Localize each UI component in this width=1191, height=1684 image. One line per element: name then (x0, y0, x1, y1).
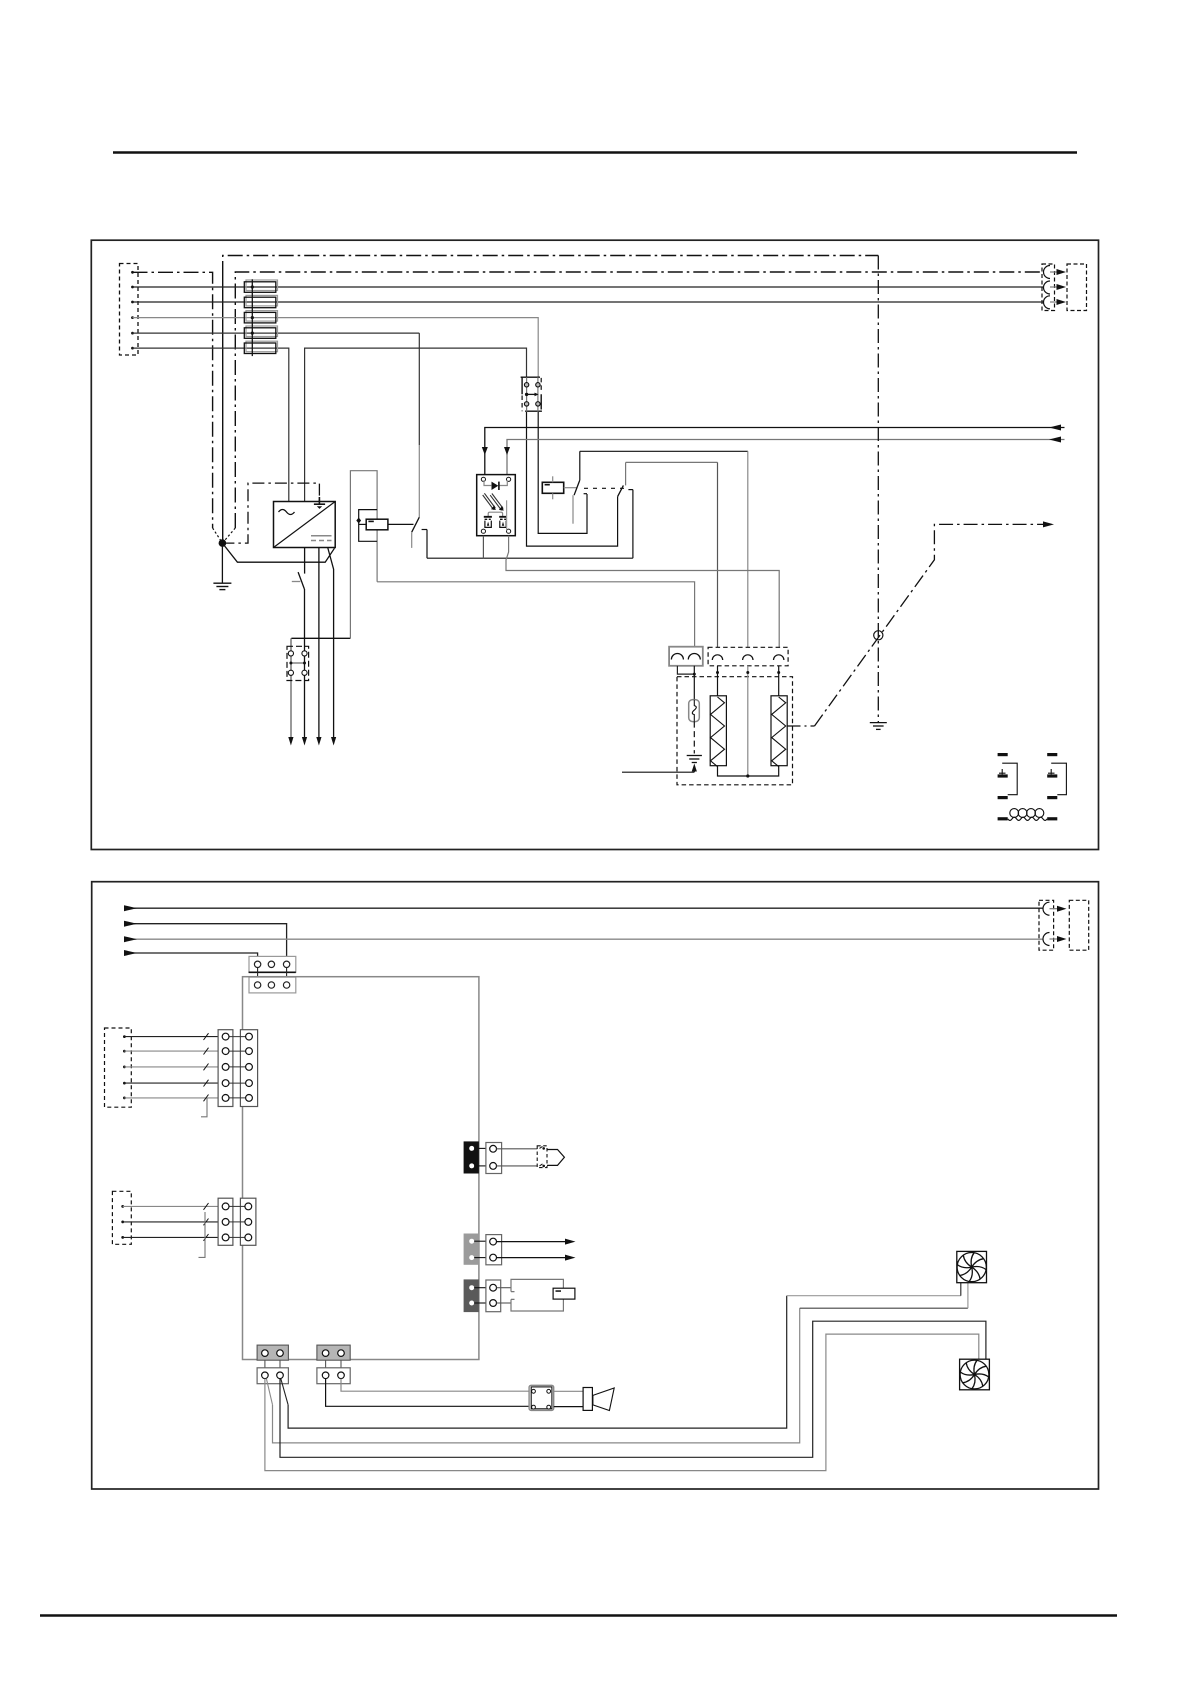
connector pair P1 (black) (464, 1141, 502, 1173)
wire: K2 c1 to strip pin2 (580, 450, 748, 452)
wire: K2 c2 to strip pin1 (gray) (626, 461, 718, 463)
connector X9 (dashed) (112, 1191, 131, 1244)
connector X13 mate (dashed) (1069, 900, 1088, 950)
gray bridge wire W1 (350, 471, 377, 639)
wire: net S2 out / opto / K2 throw (427, 557, 633, 559)
junction node N1 (213, 528, 236, 547)
frame: diagram box 1 (91, 240, 1098, 849)
terminal block X8 (218, 1030, 258, 1107)
connector X5 mate (dashed) (1067, 264, 1087, 311)
linkage (dashed) (584, 487, 627, 489)
wire: fan circuit run 4 (gray) (265, 1334, 979, 1471)
wire: pin5 drop (gray) (418, 333, 420, 445)
fan M1 (957, 1251, 987, 1282)
diagonal tap run2 (266, 1379, 272, 1405)
wire: T1 outA (527, 412, 618, 546)
connector X2 (4 screws) (287, 646, 309, 680)
wire: control line 2 with left arrow (gray) (504, 437, 1065, 475)
gray wire W2 to lamp strip (377, 582, 694, 649)
wire: X2 left drop (290, 638, 292, 740)
K1 coil left loop (356, 510, 377, 542)
fuse F5 (244, 341, 277, 353)
header rule (113, 151, 1077, 153)
diagonal tap run1 (281, 1379, 288, 1405)
wire: horn feed 1 (326, 1379, 529, 1407)
fuse F3 (244, 311, 277, 323)
wires P1 to sensor (497, 1149, 538, 1166)
connector X7 (dashed) (105, 1028, 132, 1107)
connector X6 row 2 (249, 968, 296, 993)
wire: fan circuit run 1 (288, 1296, 787, 1428)
arrow down D (331, 737, 336, 746)
fuse F4 (244, 326, 277, 338)
power supply U1 (AC/DC) (274, 502, 336, 548)
terminal strip X3 (2 way) (669, 647, 703, 676)
shield drain (lower) (199, 1212, 206, 1257)
arrow down A (288, 737, 293, 746)
wire: PSU out3 (328, 548, 334, 740)
frame: diagram box 2 (92, 882, 1099, 1489)
connector X6 row 1 (249, 956, 296, 972)
lamp ground (dashed) (687, 722, 702, 763)
terminal block X10 (218, 1198, 256, 1245)
wire: opto pin3 down to net (482, 536, 484, 559)
fuse column rail (251, 279, 254, 356)
wire: T1 outB (538, 412, 587, 534)
wire: N1 to PSU output corner (222, 543, 334, 562)
arrowhead for line1 (1049, 425, 1061, 431)
wires horn block to horn (554, 1391, 583, 1406)
wire: PSU out2 (318, 548, 320, 740)
wire: pin3 (133, 301, 1044, 303)
fuse F1 (244, 280, 277, 292)
wire: bus 1 with entry arrow (124, 905, 1044, 911)
wire: opto pin4 down to heater strip (gray) (506, 536, 779, 649)
shield drain (upper) (201, 1098, 207, 1117)
wires X9 to terminal (123, 1203, 226, 1241)
wire: S1 to X2 (304, 589, 306, 740)
earth link dash-dot to PSU (222, 483, 319, 543)
X13 arrows (1050, 906, 1067, 942)
legend symbol: coil (998, 809, 1058, 821)
relay K1 coil (366, 519, 388, 530)
horn H1 (583, 1388, 614, 1411)
wire: K1 coil to S2 (388, 523, 414, 525)
vertical dash-dot drop with pickup (874, 256, 883, 723)
wire: bus 2 with entry arrow (124, 921, 287, 961)
footer rule (40, 1614, 1117, 1616)
fan M2 (960, 1359, 990, 1390)
arrow down B (302, 737, 307, 746)
opto relay U2 (477, 475, 516, 536)
wire: pin6 continuation via T1 (305, 348, 527, 501)
wire: K2 coil to blade (564, 487, 578, 489)
K2 contact 2 (618, 462, 633, 558)
connector X12 grey row (317, 1345, 350, 1384)
wire: control line 1 with left arrow (482, 428, 1065, 475)
horn connector block (529, 1385, 554, 1410)
arrow down C (316, 737, 321, 746)
K2 contact 1 (573, 451, 587, 523)
wire: PSU out1 to switch S1 (304, 548, 306, 574)
connector X5 (box1 right) (1042, 264, 1055, 311)
wire: pin1 dash-dot left segment (133, 272, 213, 528)
switch S2 (K1 contact) (412, 517, 427, 558)
wire: bus 4 with entry arrow (124, 950, 258, 961)
output arrows from P2 (497, 1239, 576, 1261)
heater centre return (746, 666, 749, 778)
component T1 (fuse block 4 screws) (521, 377, 542, 412)
connector pair P3 (dark grey) (464, 1279, 501, 1312)
terminal strip X4 (3 way, dashed) (708, 647, 788, 666)
wires X7 to terminal (124, 1033, 225, 1101)
lamp return arrow (622, 764, 697, 773)
wire: pin4 (gray) (133, 318, 539, 378)
X5 arrows (1050, 269, 1066, 305)
heater assembly box (dashed) (677, 677, 793, 785)
wire: heater sense tap dash-dot (787, 725, 814, 727)
wire: horn feed 2 (gray) (341, 1379, 529, 1392)
wire: pin1 dash-dot right segment to connector X5 (235, 272, 1043, 528)
connector X13 (box2 right) (1039, 900, 1054, 950)
legend symbol: connector group A (998, 753, 1018, 799)
sensor plug (dashed) with arrow body (537, 1146, 564, 1168)
wire: X2 feed line (291, 637, 350, 639)
legend symbol: connector group B (1047, 753, 1066, 799)
connector pair P2 (grey) (464, 1234, 502, 1265)
connector X11 grey row (257, 1345, 288, 1384)
lamp L1 (689, 666, 700, 722)
relay K2 coil (542, 476, 563, 499)
socket housing (497, 1279, 575, 1311)
heater R1 (710, 666, 748, 776)
wire: fan circuit run 2 (gray) (273, 1308, 800, 1443)
heater R2 (748, 666, 787, 776)
wire: top dash-dot bus (223, 256, 879, 277)
wire: pin2 (133, 286, 1044, 288)
switch S1 (292, 572, 305, 589)
wire: fan circuit run 3 (280, 1321, 986, 1457)
wire: pin6 (133, 348, 289, 501)
ground GND2 (870, 723, 887, 730)
dash-dot diagonal to output arrow (815, 521, 1055, 726)
control unit A1 (243, 977, 479, 1360)
wire: bus 3 with entry arrow (gray) (124, 936, 1044, 942)
ground GND1 (213, 543, 231, 590)
wire: pin5 (133, 332, 420, 334)
connector X1 (6-pin, dashed) (120, 264, 139, 356)
ground symbol inside U1 (314, 497, 325, 509)
fuse F2 (244, 295, 277, 307)
